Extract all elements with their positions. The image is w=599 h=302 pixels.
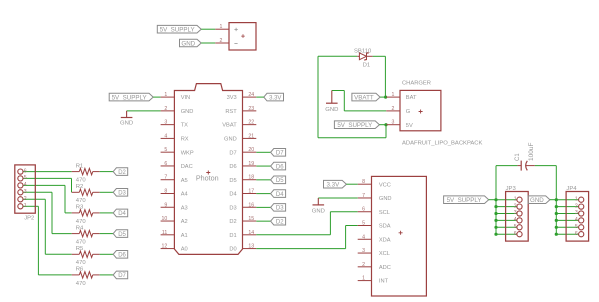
svg-text:2: 2 [575, 203, 578, 209]
Photon pin 3 TX [161, 120, 189, 129]
JP4 pin 4 [575, 217, 584, 223]
svg-text:C1: C1 [515, 153, 521, 161]
svg-text:22: 22 [248, 120, 254, 126]
svg-text:D4: D4 [276, 192, 284, 198]
svg-text:D3: D3 [118, 191, 126, 197]
wire G to GND [332, 91, 386, 111]
U2 pin 2 ADC [358, 262, 391, 271]
svg-text:GND: GND [325, 107, 338, 113]
wire R3 to D4 flag [100, 212, 114, 214]
net flag VBATT [352, 93, 380, 101]
svg-text:2: 2 [24, 196, 27, 202]
svg-text:SDA: SDA [379, 224, 391, 230]
svg-text:D1: D1 [229, 233, 236, 239]
svg-text:VBAT: VBAT [222, 123, 237, 129]
net flag D3 at Photon [271, 204, 286, 212]
svg-text:3: 3 [514, 210, 517, 216]
svg-text:R5: R5 [76, 246, 84, 252]
Photon pin 18 D5 [229, 175, 256, 184]
diode D1 SB110 [354, 48, 373, 68]
wire D0 net Photon pin13 to SDA [256, 226, 357, 249]
svg-text:2: 2 [362, 262, 365, 268]
supply flag 5V_SUPPLY at JP3 [444, 196, 489, 204]
svg-text:8: 8 [164, 188, 167, 194]
svg-text:5: 5 [362, 221, 365, 227]
svg-text:5: 5 [514, 224, 517, 230]
JP2 pin 3 [18, 189, 27, 195]
svg-text:5: 5 [24, 175, 27, 181]
svg-text:INT: INT [379, 279, 389, 285]
svg-text:3: 3 [164, 120, 167, 126]
JP4 pin 5 [575, 224, 584, 230]
capacitor C1 100uF [515, 143, 535, 171]
net flag D4 at R3 [113, 209, 128, 217]
Photon pin 13 D0 [229, 244, 256, 253]
svg-text:14: 14 [248, 230, 254, 236]
charger pin 1 BAT [386, 92, 417, 101]
svg-text:4: 4 [24, 182, 27, 188]
wire JP2 pin1 to R6 [23, 206, 72, 275]
svg-text:JP3: JP3 [506, 186, 517, 192]
net flag 3.3V at U2 VCC [324, 180, 347, 188]
JP2 pin 6 [18, 168, 27, 174]
resistor R3 470 [72, 205, 100, 225]
svg-text:XDA: XDA [379, 237, 391, 243]
svg-text:1: 1 [164, 92, 167, 98]
svg-text:1: 1 [24, 203, 27, 209]
wire 5V_SUPPLY to X1 pin1 [201, 28, 215, 30]
svg-text:D5: D5 [229, 178, 236, 184]
svg-text:470: 470 [76, 178, 87, 184]
svg-text:GND: GND [181, 40, 195, 47]
Photon pin 21 GND [224, 133, 256, 142]
svg-text:ADC: ADC [379, 265, 391, 271]
junction at VBATT BAT [384, 96, 387, 99]
Photon pin 4 RX [161, 133, 189, 142]
JP4 pin 1 [575, 196, 584, 202]
wire D4 to flag [256, 193, 270, 195]
svg-text:13: 13 [248, 244, 254, 250]
svg-text:CHARGER: CHARGER [402, 80, 431, 86]
svg-text:SB110: SB110 [354, 48, 372, 54]
wire 3V3 to 3.3V flag [256, 96, 264, 98]
svg-text:2: 2 [391, 106, 394, 112]
svg-text:D0: D0 [229, 247, 236, 253]
Photon pin 2 GND [161, 106, 194, 115]
wire D1 net Photon pin14 to SCL [256, 212, 357, 235]
Photon pin 14 D1 [229, 230, 256, 239]
net flag D7 at R6 [113, 271, 128, 279]
svg-text:1: 1 [391, 92, 394, 98]
svg-text:5: 5 [575, 224, 578, 230]
wire GND flag to bus [550, 199, 556, 201]
net flag D6 at R5 [113, 251, 128, 259]
svg-text:DAC: DAC [181, 164, 193, 170]
accelerometer module U2 [372, 176, 427, 296]
svg-text:A2: A2 [181, 219, 188, 225]
supply flag GND top [180, 39, 202, 47]
wire D2 to flag [256, 220, 270, 222]
JP4 pin 6 [575, 231, 584, 237]
Photon pin 11 A1 [161, 230, 188, 239]
svg-text:GND: GND [379, 196, 392, 202]
JP4 pin 3 [575, 210, 584, 216]
svg-text:A0: A0 [181, 247, 188, 253]
svg-text:470: 470 [76, 219, 87, 225]
svg-text:3: 3 [391, 120, 394, 126]
svg-text:R6: R6 [76, 267, 84, 273]
svg-text:17: 17 [248, 188, 254, 194]
wire JP4 ground bus [555, 166, 579, 236]
svg-text:4: 4 [514, 217, 517, 223]
JP2 pin 4 [18, 182, 27, 188]
charger pin 3 5V [386, 120, 413, 129]
svg-text:D2: D2 [229, 219, 236, 225]
svg-text:5V_SUPPLY: 5V_SUPPLY [447, 197, 482, 204]
svg-text:3: 3 [362, 248, 365, 254]
junction at 5V pin3 [384, 123, 387, 126]
header JP2 [15, 165, 36, 222]
charger pin 2 G [386, 106, 410, 115]
JP3 pin 3 [514, 210, 522, 216]
svg-text:8: 8 [362, 179, 365, 185]
U2 pin 7 GND [358, 193, 392, 202]
net flag D5 at R4 [113, 230, 128, 238]
svg-text:A3: A3 [181, 205, 188, 211]
svg-text:2: 2 [220, 38, 223, 44]
supply flag 5V_SUPPLY at VIN [109, 93, 153, 101]
svg-text:TX: TX [181, 123, 188, 129]
svg-text:5V: 5V [406, 123, 413, 129]
svg-text:VBATT: VBATT [354, 94, 374, 101]
resistor R4 470 [72, 225, 100, 245]
svg-text:4: 4 [575, 217, 578, 223]
Photon pin 15 D2 [229, 216, 256, 225]
wire 5V_SUPPLY to 5V pin [379, 124, 386, 126]
U2 pin 8 VCC [358, 179, 391, 188]
Photon pin 24 3V3 [227, 92, 257, 101]
svg-text:3: 3 [24, 189, 27, 195]
svg-text:RX: RX [181, 137, 189, 143]
U2 pin 3 XCL [358, 248, 390, 257]
resistor R5 470 [72, 246, 100, 266]
wire D5 to flag [256, 179, 270, 181]
wire 5V loop bottom [318, 125, 386, 138]
net flag 3.3V at Photon 3V3 [264, 93, 284, 101]
wire 5V loop left vertical [317, 56, 319, 138]
JP3 pin 6 [514, 231, 522, 237]
wire JP2 pin4 to R3 [23, 185, 72, 213]
wire GND net from Photon pin2 [127, 110, 161, 112]
svg-text:6: 6 [575, 231, 578, 237]
wire GND to X1 pin2 [201, 42, 215, 44]
svg-text:RST: RST [225, 109, 237, 115]
svg-text:VIN: VIN [181, 95, 190, 101]
svg-text:19: 19 [248, 161, 254, 167]
svg-text:6: 6 [164, 161, 167, 167]
svg-text:12: 12 [162, 244, 168, 250]
svg-text:5V_SUPPLY: 5V_SUPPLY [337, 122, 372, 129]
svg-text:D7: D7 [276, 151, 284, 157]
wire R4 to D5 flag [100, 233, 114, 235]
Photon pin 20 D7 [229, 147, 256, 156]
svg-text:G: G [406, 109, 410, 115]
wire R5 to D6 flag [100, 253, 114, 255]
JP2 pin 1 [18, 203, 27, 209]
wire R6 to D7 flag [100, 274, 114, 276]
svg-text:4: 4 [164, 133, 167, 139]
U2 pin 4 XDA [358, 234, 391, 243]
svg-text:D6: D6 [229, 164, 236, 170]
resistor R2 470 [72, 184, 100, 204]
wire D1 to VBATT node [373, 56, 386, 97]
svg-text:3.3V: 3.3V [269, 95, 281, 101]
wire 5V_SUPPLY flag to bus [489, 199, 496, 201]
ground GND at U2 [312, 198, 325, 215]
Photon pin 5 WKP [161, 147, 194, 156]
Photon pin 23 RST [225, 106, 256, 115]
svg-text:2: 2 [164, 106, 167, 112]
wire JP2 pin5 to R2 [23, 178, 72, 192]
svg-text:D7: D7 [118, 273, 126, 279]
svg-text:470: 470 [76, 260, 87, 266]
wire JP2 pin3 to R4 [23, 192, 72, 233]
wire C1 right to JP4 bus [535, 165, 557, 167]
wire 3.3V to VCC [346, 183, 357, 185]
svg-text:GND: GND [181, 109, 194, 115]
JP3 pin 5 [514, 224, 522, 230]
net flag D4 at Photon [271, 190, 286, 198]
svg-text:JP4: JP4 [566, 186, 577, 192]
svg-text:5: 5 [164, 147, 167, 153]
svg-text:3.3V: 3.3V [326, 182, 340, 189]
svg-text:D5: D5 [118, 232, 126, 238]
wire VBATT to BAT [380, 96, 386, 98]
svg-text:ADAFRUIT_LIPO_BACKPACK: ADAFRUIT_LIPO_BACKPACK [402, 141, 483, 147]
svg-text:21: 21 [248, 133, 254, 139]
svg-text:D2: D2 [118, 170, 126, 176]
JP3 pin 2 [514, 203, 522, 209]
svg-text:1: 1 [575, 196, 578, 202]
svg-text:5V_SUPPLY: 5V_SUPPLY [112, 94, 147, 101]
svg-text:XCL: XCL [379, 251, 390, 257]
svg-text:SCL: SCL [379, 210, 390, 216]
net flag D6 at Photon [271, 162, 286, 170]
svg-text:D3: D3 [229, 205, 236, 211]
svg-text:6: 6 [362, 207, 365, 213]
svg-text:18: 18 [248, 175, 254, 181]
JP4 pin 2 [575, 203, 584, 209]
resistor R6 470 [72, 267, 100, 287]
svg-text:D4: D4 [118, 211, 126, 217]
svg-text:D6: D6 [276, 164, 284, 170]
svg-text:7: 7 [362, 193, 365, 199]
svg-text:2: 2 [514, 203, 517, 209]
svg-text:JP2: JP2 [24, 216, 34, 222]
wire R1 to D2 flag [100, 171, 114, 173]
X1 pin 2 [215, 38, 229, 44]
JP2 pin 2 [18, 196, 27, 202]
wire JP2 pin6 to R1 [23, 171, 72, 173]
svg-text:1: 1 [220, 24, 223, 30]
svg-text:R4: R4 [76, 225, 84, 231]
svg-text:1: 1 [514, 196, 517, 202]
svg-text:D5: D5 [276, 178, 284, 184]
header JP4 [566, 186, 589, 241]
JP3 pin 4 [514, 217, 522, 223]
svg-text:23: 23 [248, 106, 254, 112]
ground GND at charger [325, 91, 338, 114]
JP2 pin 5 [18, 175, 27, 181]
Photon pin 8 A4 [161, 188, 188, 197]
X1 pin 1 [215, 24, 229, 30]
Photon pin 22 VBAT [222, 120, 256, 129]
ground GND at Photon pin2 [120, 111, 133, 126]
svg-text:A5: A5 [181, 178, 188, 184]
wire 5V_SUPPLY to VIN [153, 96, 160, 98]
wire D7 to flag [256, 151, 270, 153]
Photon pin 16 D3 [229, 202, 256, 211]
resistor R1 470 [72, 163, 100, 183]
wire U2 GND [318, 197, 357, 199]
supply flag 5V_SUPPLY top [157, 25, 201, 33]
svg-text:470: 470 [76, 240, 87, 246]
wire R2 to D3 flag [100, 191, 114, 193]
svg-text:GND: GND [224, 137, 237, 143]
svg-text:3: 3 [575, 210, 578, 216]
net flag GND at JP4 [528, 196, 550, 204]
net flag D7 at Photon [271, 149, 286, 157]
Photon pin 17 D4 [229, 188, 256, 197]
svg-text:3V3: 3V3 [227, 95, 237, 101]
svg-text:16: 16 [248, 202, 254, 208]
svg-text:A4: A4 [181, 192, 188, 198]
header JP3 [506, 186, 529, 241]
svg-text:7: 7 [164, 175, 167, 181]
net flag D3 at R2 [113, 189, 128, 197]
svg-text:11: 11 [162, 230, 167, 236]
wire JP2 pin2 to R5 [23, 199, 72, 254]
microcontroller Photon [174, 84, 242, 255]
wire D6 to flag [256, 165, 270, 167]
svg-text:D2: D2 [276, 219, 284, 225]
svg-text:GND: GND [312, 209, 325, 215]
svg-text:100uF: 100uF [528, 143, 535, 161]
wire JP3 supply bus [494, 166, 517, 236]
svg-text:GND: GND [530, 197, 544, 204]
svg-text:R3: R3 [76, 205, 84, 211]
wire D3 to flag [256, 206, 270, 208]
svg-text:5V_SUPPLY: 5V_SUPPLY [160, 27, 195, 34]
Photon pin 19 D6 [229, 161, 256, 170]
svg-text:20: 20 [248, 147, 254, 153]
svg-text:4: 4 [362, 234, 365, 240]
U2 pin 1 INT [358, 276, 389, 285]
JP3 pin 1 [514, 196, 522, 202]
supply flag 5V_SUPPLY at charger [334, 121, 379, 129]
net flag D2 at R1 [113, 168, 128, 176]
svg-text:D4: D4 [229, 192, 236, 198]
svg-text:6: 6 [24, 168, 27, 174]
Photon pin 6 DAC [161, 161, 193, 170]
Photon pin 1 VIN [161, 92, 191, 101]
svg-text:6: 6 [514, 231, 517, 237]
svg-text:470: 470 [76, 281, 87, 287]
svg-text:1: 1 [362, 276, 365, 282]
net flag D2 at Photon [271, 217, 286, 225]
power connector X1 [229, 23, 256, 50]
Photon pin 10 A2 [161, 216, 188, 225]
wire 5V loop left of D1 [318, 55, 357, 57]
svg-text:10: 10 [162, 216, 168, 222]
svg-text:R1: R1 [76, 163, 84, 169]
U2 pin 6 SCL [358, 207, 390, 216]
svg-text:D1: D1 [363, 63, 371, 69]
Photon pin 9 A3 [161, 202, 188, 211]
net flag D5 at Photon [271, 176, 286, 184]
svg-text:GND: GND [120, 120, 133, 126]
svg-text:D3: D3 [276, 206, 284, 212]
svg-text:15: 15 [248, 216, 254, 222]
Photon pin 12 A0 [161, 244, 188, 253]
Photon pin 7 A5 [161, 175, 188, 184]
svg-text:VCC: VCC [379, 182, 391, 188]
svg-text:D6: D6 [118, 253, 126, 259]
wire C1 left to JP3 bus [496, 165, 517, 167]
svg-text:D7: D7 [229, 150, 236, 156]
svg-text:WKP: WKP [181, 150, 194, 156]
svg-text:470: 470 [76, 198, 87, 204]
svg-text:R2: R2 [76, 184, 84, 190]
charger module ADAFRUIT_LIPO_BACKPACK [400, 80, 483, 146]
svg-text:9: 9 [164, 202, 167, 208]
svg-text:BAT: BAT [406, 95, 417, 101]
svg-text:Photon: Photon [196, 174, 219, 183]
svg-text:A1: A1 [181, 233, 188, 239]
svg-text:24: 24 [248, 92, 254, 98]
U2 pin 5 SDA [358, 221, 391, 230]
